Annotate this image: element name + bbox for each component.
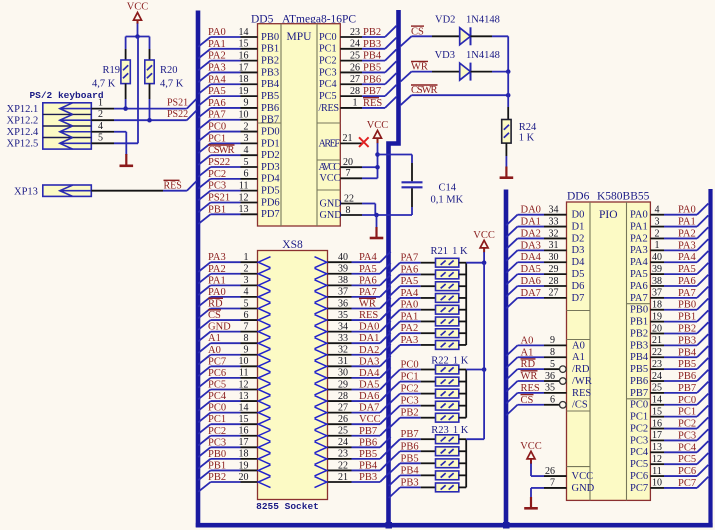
- resistor R22 element 2 (PC1): [436, 377, 459, 386]
- svg-text:VCC: VCC: [320, 173, 341, 184]
- wire: R19 bottom lead to keyboard data line: [125, 84, 127, 99]
- svg-text:PC1: PC1: [319, 44, 337, 55]
- svg-text:D5: D5: [572, 269, 585, 280]
- wire: net PC3 from middle bus to R22 resistor 4: [389, 396, 436, 417]
- svg-text:35: 35: [338, 310, 348, 321]
- svg-text:12: 12: [652, 454, 662, 465]
- connector XP12 contact arrow row 1: [60, 108, 92, 110]
- svg-text:5: 5: [550, 359, 555, 370]
- svg-text:PB7: PB7: [401, 429, 419, 440]
- DD6 pin 38 (PA6) wire to right bus, net PA6: [630, 275, 708, 292]
- node: R21 VCC dot: [482, 260, 487, 265]
- svg-text:PS22: PS22: [167, 109, 188, 120]
- svg-text:CSWR: CSWR: [208, 145, 235, 156]
- XS8 contact chevron pin 30: [315, 372, 327, 383]
- ground symbol below DD6: [530, 497, 532, 508]
- svg-text:17: 17: [239, 437, 249, 448]
- svg-text:PA6: PA6: [359, 275, 377, 286]
- ground symbol below DD5: [375, 227, 377, 238]
- svg-text:1 K: 1 K: [519, 132, 535, 143]
- svg-text:6: 6: [550, 395, 555, 406]
- svg-text:33: 33: [338, 333, 348, 344]
- svg-text:PB0: PB0: [208, 449, 226, 460]
- svg-text:PB2: PB2: [630, 328, 648, 339]
- svg-text:VCC: VCC: [520, 441, 542, 452]
- svg-text:PA6: PA6: [208, 98, 226, 109]
- DD5 pin 24 (PC1) wire to middle bus, net PB3: [319, 38, 396, 55]
- svg-text:PC5: PC5: [208, 379, 226, 390]
- svg-text:3: 3: [655, 216, 660, 227]
- XS8 contact chevron pin 7: [258, 326, 270, 337]
- svg-text:R21: R21: [431, 246, 449, 257]
- DD5 pin 5 (PD3) wire from bus, net PS22: [198, 157, 279, 177]
- svg-text:24: 24: [338, 437, 348, 448]
- svg-text:10: 10: [652, 478, 662, 489]
- connector XP13 contact arrow: [60, 190, 92, 192]
- XS8 pin 10 wire from bus, net PC7: [198, 356, 257, 376]
- DD6 pin 16 (PC2) wire to right bus, net PC2: [630, 417, 708, 434]
- svg-text:PC2: PC2: [630, 423, 648, 434]
- resistor R21 element 8 (PA3): [436, 341, 459, 350]
- resistor R21 element 4 (PA4): [436, 294, 459, 303]
- svg-text:2: 2: [98, 109, 103, 120]
- svg-text:DA2: DA2: [521, 228, 541, 239]
- DD5 pin 11 (PD5) wire from bus, net PC3: [198, 180, 279, 200]
- wire: net PA6 from middle bus to R21 resistor 2: [389, 264, 436, 285]
- node: VD3 junction dot: [506, 69, 511, 74]
- svg-text:GND: GND: [320, 198, 342, 209]
- svg-text:DA7: DA7: [521, 288, 541, 299]
- svg-text:DA1: DA1: [359, 333, 379, 344]
- svg-text:PC3: PC3: [208, 437, 226, 448]
- DD6 pin 26 VCC wire: [531, 466, 593, 482]
- wire: XP12 pin1 (data) to bus, net PS21: [91, 108, 114, 110]
- wire: XP12 pin2 (clock) to bus, net PS22: [91, 119, 114, 121]
- svg-text:13: 13: [652, 442, 662, 453]
- svg-text:DA6: DA6: [521, 276, 541, 287]
- svg-text:2: 2: [244, 121, 249, 132]
- DD6 pin 36 (/WR) wire from bus, net WR: [506, 371, 592, 392]
- DD5 pin 22 GND wire: [320, 193, 376, 215]
- svg-text:DA1: DA1: [521, 217, 541, 228]
- svg-text:PB4: PB4: [359, 460, 378, 471]
- svg-text:PS/2 keyboard: PS/2 keyboard: [29, 90, 103, 101]
- svg-text:7: 7: [550, 478, 555, 489]
- svg-text:39: 39: [652, 264, 662, 275]
- svg-text:PB5: PB5: [261, 91, 279, 102]
- DD6 pin 30 (D4) wire from bus, net DA4: [506, 252, 585, 273]
- XS8 contact chevron pin 23: [315, 453, 327, 464]
- XS8 contact chevron pin 33: [315, 338, 327, 349]
- svg-text:1: 1: [353, 98, 358, 109]
- power symbol VCC (top left): [134, 13, 142, 21]
- svg-text:PA0: PA0: [630, 210, 648, 221]
- svg-text:PC3: PC3: [678, 430, 696, 441]
- svg-text:16: 16: [239, 50, 249, 61]
- node: junction dot R19/pin1: [123, 106, 128, 111]
- svg-text:AREF: AREF: [319, 138, 341, 149]
- DD5 pin 23 (PC0) wire to middle bus, net PB2: [319, 26, 396, 43]
- svg-text:PA3: PA3: [678, 240, 696, 251]
- svg-text:PB1: PB1: [678, 312, 696, 323]
- XS8 pin 20 wire from bus, net PB2: [198, 472, 257, 492]
- XS8 pin 32 wire to middle bus, net DA2: [328, 344, 391, 356]
- svg-text:PC7: PC7: [630, 483, 648, 494]
- svg-text:PB2: PB2: [678, 324, 696, 335]
- connector XP12 contact arrow row 4: [60, 142, 92, 144]
- svg-text:PA0: PA0: [208, 27, 226, 38]
- XS8 contact chevron pin 15: [258, 419, 270, 430]
- svg-text:PC2: PC2: [208, 426, 226, 437]
- capacitor C14 top lead: [411, 155, 413, 164]
- DD5 pin 9 (PB6) wire from bus, net PA6: [198, 98, 279, 118]
- svg-text:PB4: PB4: [401, 465, 420, 476]
- XS8 contact chevron pin 12: [258, 384, 270, 395]
- DD6 pin 18 (PB0) wire to right bus, net PB0: [630, 299, 708, 316]
- lead: R21 element 1 right: [459, 262, 466, 264]
- svg-text:11: 11: [239, 368, 249, 379]
- svg-text:PA1: PA1: [678, 217, 696, 228]
- svg-text:PA5: PA5: [678, 264, 696, 275]
- XS8 pin 35 wire to middle bus, net RES: [328, 309, 391, 321]
- svg-text:PS22: PS22: [208, 157, 230, 168]
- svg-text:28: 28: [549, 276, 559, 287]
- wire: R19 top lead: [125, 37, 127, 50]
- svg-text:PD6: PD6: [261, 197, 280, 208]
- XS8 pin 18 wire from bus, net PB0: [198, 449, 257, 469]
- svg-text:PA7: PA7: [678, 288, 696, 299]
- svg-text:32: 32: [338, 345, 348, 356]
- svg-text:XP12.1: XP12.1: [7, 104, 39, 115]
- wire: GND down to ground symbol: [376, 215, 378, 228]
- XS8 contact chevron pin 24: [315, 442, 327, 453]
- lead: R21 element 5 right: [459, 309, 466, 311]
- svg-text:23: 23: [652, 359, 662, 370]
- svg-text:/RD: /RD: [572, 364, 590, 375]
- XS8 contact chevron pin 13: [258, 396, 270, 407]
- svg-text:30: 30: [338, 368, 348, 379]
- lead: R21 element 4 right: [459, 297, 466, 299]
- capacitor C14: [402, 181, 423, 183]
- XS8 pin 15 wire from bus, net PC1: [198, 414, 257, 434]
- capacitor C14 bottom lead: [411, 188, 413, 207]
- svg-text:PB6: PB6: [261, 103, 279, 114]
- svg-text:A0: A0: [572, 340, 585, 351]
- wire: R20 top lead: [149, 37, 151, 50]
- svg-text:28: 28: [350, 86, 360, 97]
- svg-text:PA3: PA3: [208, 62, 226, 73]
- resistor R23 element 3 (PB5): [436, 459, 459, 468]
- DD6 pin 17 (PC3) wire to right bus, net PC3: [630, 429, 708, 446]
- svg-text:PB0: PB0: [678, 300, 696, 311]
- DD6 pin 3 (PA1) wire to right bus, net PA1: [630, 215, 708, 232]
- svg-text:PC5: PC5: [319, 91, 337, 102]
- svg-text:PD4: PD4: [261, 174, 280, 185]
- DD5 pin 7 VCC wire: [320, 168, 378, 184]
- svg-text:DA0: DA0: [359, 322, 379, 333]
- svg-text:PC4: PC4: [678, 442, 697, 453]
- XS8 pin 37 wire to middle bus, net PA7: [328, 286, 391, 298]
- svg-text:20: 20: [652, 323, 662, 334]
- DD5 pin 27 (PC4) wire to middle bus, net PB6: [319, 73, 396, 90]
- resistor R22 element 4 (PC3): [436, 401, 459, 410]
- wire: R24 bottom lead: [505, 143, 507, 156]
- wire: net PB6 from middle bus to R23 resistor 2: [389, 441, 436, 462]
- XS8 pin 11 wire from bus, net PC6: [198, 368, 257, 388]
- svg-text:PB7: PB7: [678, 383, 696, 394]
- svg-text:PC2: PC2: [208, 169, 226, 180]
- XS8 contact chevron pin 31: [315, 361, 327, 372]
- svg-text:D0: D0: [572, 210, 585, 221]
- svg-text:11: 11: [239, 180, 249, 191]
- svg-text:PA6: PA6: [678, 276, 696, 287]
- svg-text:PD2: PD2: [261, 150, 280, 161]
- svg-text:CS: CS: [208, 310, 221, 321]
- svg-text:PB5: PB5: [363, 62, 381, 73]
- svg-text:PC2: PC2: [678, 419, 696, 430]
- svg-text:5: 5: [244, 157, 249, 168]
- svg-text:PB4: PB4: [363, 51, 382, 62]
- svg-text:31: 31: [338, 356, 348, 367]
- svg-text:27: 27: [350, 74, 360, 85]
- wire: net CS from middle bus to VD2: [401, 26, 460, 46]
- svg-text:18: 18: [239, 449, 249, 460]
- svg-text:PD0: PD0: [261, 126, 280, 137]
- DD6 pin 39 (PA5) wire to right bus, net PA5: [630, 263, 708, 280]
- DD5 pin 6 (PD4) wire from bus, net PC2: [198, 169, 280, 189]
- svg-text:PC0: PC0: [630, 400, 648, 411]
- DD6 pin 5 (/RD) wire from bus, net RD: [506, 359, 590, 380]
- DD6 pin 32 (D2) wire from bus, net DA2: [506, 228, 584, 249]
- svg-text:RES: RES: [363, 98, 382, 109]
- XS8 contact chevron pin 14: [258, 407, 270, 418]
- resistor R20: [145, 60, 154, 84]
- wire: horizontal split to R19/R20: [126, 36, 150, 38]
- svg-text:RES: RES: [164, 181, 182, 192]
- lead: R23 element 5 right: [459, 486, 466, 488]
- wire: net CSWR from middle bus to rail: [401, 85, 509, 105]
- svg-text:PB4: PB4: [678, 347, 697, 358]
- svg-text:PA7: PA7: [359, 287, 377, 298]
- svg-text:1: 1: [244, 252, 249, 263]
- DD5 pin 4 (PD2) wire from bus, net CSWR: [198, 145, 279, 165]
- svg-text:MPU: MPU: [287, 31, 313, 43]
- svg-text:9: 9: [550, 335, 555, 346]
- wire: XP13 to bus, net RES: [91, 190, 163, 192]
- svg-text:PB6: PB6: [359, 437, 377, 448]
- DD5 pin 13 (PD7) wire from bus, net PB1: [198, 204, 279, 224]
- connector XP12 contact arrow row 3: [60, 131, 92, 133]
- svg-text:PA1: PA1: [630, 221, 648, 232]
- XS8 contact chevron pin 28: [315, 396, 327, 407]
- DD5 pin 10 (PB7) wire from bus, net PA7: [198, 110, 279, 130]
- svg-text:PA3: PA3: [208, 252, 226, 263]
- svg-text:CSWR: CSWR: [411, 85, 438, 96]
- DD6 pin 2 (PA2) wire to right bus, net PA2: [630, 227, 708, 244]
- wire: XP12 pin4 down to ground: [91, 131, 114, 133]
- svg-text:1: 1: [655, 240, 660, 251]
- svg-text:36: 36: [338, 298, 348, 309]
- wire: R22 common to VCC rail: [466, 369, 484, 371]
- DD5 pin 16 (PB2) wire from bus, net PA2: [198, 50, 279, 70]
- svg-text:32: 32: [549, 228, 559, 239]
- svg-text:PA3: PA3: [401, 335, 419, 346]
- DD6 pin 35 (RES) wire from bus, net RES: [506, 383, 591, 404]
- XS8 pin 26 wire to middle bus, net VCC: [328, 414, 391, 426]
- power symbol VCC (at DD5 AVCC): [367, 120, 389, 155]
- svg-text:PA5: PA5: [208, 86, 226, 97]
- svg-text:3: 3: [244, 275, 249, 286]
- svg-text:DA2: DA2: [359, 345, 379, 356]
- XS8 pin 33 wire to middle bus, net DA1: [328, 333, 391, 345]
- svg-text:PC3: PC3: [319, 67, 337, 78]
- svg-text:PC1: PC1: [678, 407, 696, 418]
- svg-text:PA0: PA0: [678, 205, 696, 216]
- power symbol VCC (DD6): [520, 441, 542, 476]
- XS8 contact chevron pin 35: [315, 315, 327, 326]
- DD5 pin 26 (PC3) wire to middle bus, net PB5: [319, 61, 396, 78]
- svg-text:PB6: PB6: [630, 376, 648, 387]
- resistor R24: [502, 120, 511, 144]
- resistor R21 element 6 (PA1): [436, 317, 459, 326]
- lead: R22 common ladder: [465, 370, 467, 418]
- lead: R23 element 2 right: [459, 450, 466, 452]
- DD5 pin 12 (PD6) wire from bus, net PS21: [198, 192, 279, 212]
- DD5 pin 18 (PB4) wire from bus, net PA4: [198, 74, 280, 94]
- wire: rail down to R24: [507, 72, 509, 107]
- svg-text:PC7: PC7: [208, 356, 226, 367]
- XS8 pin 2 wire from bus, net PA2: [198, 264, 257, 284]
- svg-text:14: 14: [652, 395, 662, 406]
- XS8 pin 39 wire to middle bus, net PA5: [328, 263, 391, 275]
- svg-text:PB6: PB6: [363, 74, 381, 85]
- XS8 pin 1 wire from bus, net PA3: [198, 252, 257, 272]
- svg-text:PB1: PB1: [630, 317, 648, 328]
- svg-text:/RES: /RES: [319, 103, 340, 114]
- lead: R22 element 3 right: [459, 393, 466, 395]
- svg-text:PA7: PA7: [208, 110, 226, 121]
- svg-text:PB2: PB2: [363, 27, 381, 38]
- svg-text:PC7: PC7: [678, 478, 696, 489]
- svg-text:PA5: PA5: [630, 269, 648, 280]
- XS8 pin 24 wire to middle bus, net PB6: [328, 437, 391, 449]
- svg-text:1 K: 1 K: [452, 246, 468, 257]
- wire: VCC stem down to junction: [137, 20, 139, 24]
- svg-text:R20: R20: [160, 65, 178, 76]
- DD6 internal dividers: [589, 202, 591, 500]
- svg-text:17: 17: [652, 430, 662, 441]
- svg-text:19: 19: [652, 311, 662, 322]
- svg-text:PC0: PC0: [401, 360, 419, 371]
- lead: R23 element 1 right: [459, 438, 466, 440]
- svg-text:WR: WR: [521, 371, 538, 382]
- svg-text:A1: A1: [521, 347, 534, 358]
- node: junction dot R20/pin2: [147, 118, 152, 123]
- DD5 internal dividers: [280, 24, 282, 226]
- connector XP12 contact arrow row 2: [60, 119, 92, 121]
- DD6 pin 1 (PA3) wire to right bus, net PA3: [630, 239, 708, 256]
- resistor R23 element 4 (PB4): [436, 471, 459, 480]
- XS8 contact chevron pin 17: [258, 442, 270, 453]
- svg-text:/CS: /CS: [572, 400, 588, 411]
- svg-text:4: 4: [98, 121, 103, 132]
- bus: bottom horizontal bus backbone: [196, 523, 713, 528]
- wire: net WR from middle bus to VD3: [401, 61, 460, 81]
- wire: net PA0 from middle bus to R21 resistor 5: [389, 300, 436, 321]
- svg-text:PB1: PB1: [208, 460, 226, 471]
- DD6 pin 33 (D1) wire from bus, net DA1: [506, 216, 584, 237]
- svg-text:PA2: PA2: [208, 51, 226, 62]
- svg-text:PB2: PB2: [401, 408, 419, 419]
- svg-text:33: 33: [549, 216, 559, 227]
- lead: R21 element 8 right: [459, 344, 466, 346]
- wire: net PB4 from middle bus to R23 resistor 4: [389, 465, 436, 486]
- resistor R22 element 3 (PC2): [436, 389, 459, 398]
- svg-text:PC1: PC1: [630, 412, 648, 423]
- resistor R21 element 2 (PA6): [436, 270, 459, 279]
- wire: net PA7 from middle bus to R21 resistor 1: [389, 253, 436, 274]
- svg-text:PB6: PB6: [678, 371, 696, 382]
- svg-text:XP13: XP13: [14, 187, 38, 198]
- svg-text:12: 12: [239, 379, 249, 390]
- XS8 pin 40 wire to middle bus, net PA4: [328, 252, 391, 264]
- svg-text:PA2: PA2: [630, 233, 648, 244]
- XS8 pin 8 wire from bus, net A1: [198, 333, 257, 353]
- svg-text:23: 23: [338, 449, 348, 460]
- lead: R22 element 2 right: [459, 381, 466, 383]
- svg-text:RD: RD: [208, 298, 223, 309]
- svg-text:DA5: DA5: [521, 264, 541, 275]
- svg-text:VCC: VCC: [367, 120, 389, 131]
- wire: XP12 pin5 to VCC center line: [91, 142, 114, 144]
- wire: net PC0 from middle bus to R22 resistor 1: [389, 360, 436, 381]
- svg-text:7: 7: [346, 168, 351, 179]
- XS8 pin 22 wire to middle bus, net PB4: [328, 460, 391, 472]
- svg-text:PA1: PA1: [208, 275, 226, 286]
- svg-text:PB5: PB5: [678, 359, 696, 370]
- svg-text:27: 27: [338, 402, 348, 413]
- svg-text:A0: A0: [208, 345, 221, 356]
- XS8 pin 38 wire to middle bus, net PA6: [328, 275, 391, 287]
- svg-text:PA7: PA7: [401, 253, 419, 264]
- svg-text:PC5: PC5: [678, 454, 696, 465]
- svg-text:38: 38: [338, 275, 348, 286]
- XS8 contact chevron pin 26: [315, 419, 327, 430]
- DD6 pin 13 (PC4) wire to right bus, net PC4: [630, 441, 708, 458]
- XS8 pin 4 wire from bus, net PA0: [198, 287, 257, 307]
- svg-text:PB7: PB7: [363, 86, 381, 97]
- svg-text:R19: R19: [102, 65, 120, 76]
- wire: net PA3 from middle bus to R21 resistor 8: [389, 335, 436, 356]
- wire: net PA5 from middle bus to R21 resistor 3: [389, 276, 436, 297]
- XS8 pin 36 wire to middle bus, net WR: [328, 298, 391, 310]
- svg-text:A1: A1: [572, 352, 585, 363]
- svg-text:XS8: XS8: [282, 239, 303, 251]
- wire: R20 bottom lead to keyboard clock line: [149, 84, 151, 99]
- resistor R23 element 1 (PB7): [436, 435, 459, 444]
- XS8 contact chevron pin 39: [315, 268, 327, 279]
- svg-text:1N4148: 1N4148: [466, 50, 500, 61]
- svg-text:PA4: PA4: [630, 257, 648, 268]
- svg-text:PD3: PD3: [261, 162, 280, 173]
- XS8 contact chevron pin 22: [315, 465, 327, 476]
- resistor R21 element 1 (PA7): [436, 258, 459, 267]
- resistor R23 element 5 (PB3): [436, 483, 459, 492]
- svg-text:D3: D3: [572, 245, 585, 256]
- svg-text:25: 25: [652, 383, 662, 394]
- svg-text:PB3: PB3: [363, 39, 381, 50]
- junction blob: middle bus joins bottom bus: [386, 522, 393, 529]
